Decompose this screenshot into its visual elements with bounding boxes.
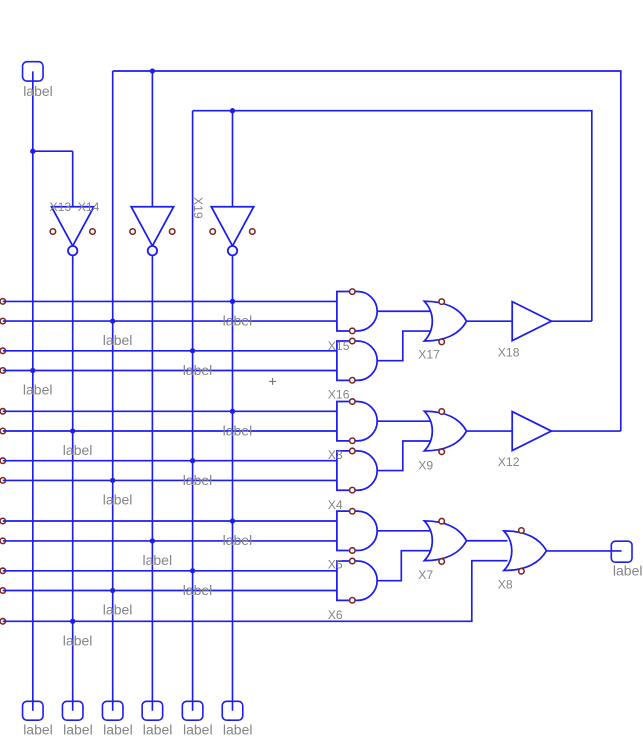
svg-text:X15: X15	[328, 339, 350, 353]
svg-text:label: label	[183, 722, 213, 738]
svg-text:label: label	[23, 382, 53, 398]
svg-text:label: label	[183, 362, 213, 378]
svg-text:X3: X3	[328, 448, 343, 462]
svg-text:X7: X7	[418, 568, 433, 582]
svg-text:X19: X19	[191, 197, 205, 219]
svg-text:X13: X13	[50, 200, 72, 214]
svg-text:label: label	[103, 602, 133, 618]
svg-text:label: label	[63, 722, 93, 738]
svg-text:label: label	[23, 722, 53, 738]
svg-text:X5: X5	[328, 557, 343, 571]
svg-text:label: label	[103, 332, 133, 348]
svg-text:X6: X6	[328, 608, 343, 622]
svg-text:label: label	[223, 722, 253, 738]
svg-text:X18: X18	[498, 346, 520, 360]
svg-text:label: label	[223, 313, 253, 329]
svg-text:label: label	[183, 582, 213, 598]
svg-text:label: label	[183, 472, 213, 488]
svg-text:X17: X17	[418, 348, 440, 362]
svg-text:label: label	[103, 722, 133, 738]
svg-text:X4: X4	[328, 498, 343, 512]
svg-text:label: label	[23, 83, 53, 99]
svg-text:X16: X16	[328, 387, 350, 401]
svg-text:label: label	[63, 632, 93, 648]
svg-text:label: label	[63, 442, 93, 458]
svg-text:label: label	[613, 563, 643, 579]
svg-text:label: label	[103, 492, 133, 508]
svg-text:X8: X8	[498, 578, 513, 592]
svg-text:X9: X9	[418, 459, 433, 473]
svg-text:label: label	[143, 722, 173, 738]
svg-text:X12: X12	[498, 455, 520, 469]
svg-text:label: label	[223, 422, 253, 438]
svg-text:X14: X14	[78, 200, 100, 214]
svg-text:label: label	[223, 532, 253, 548]
svg-text:label: label	[143, 552, 173, 568]
